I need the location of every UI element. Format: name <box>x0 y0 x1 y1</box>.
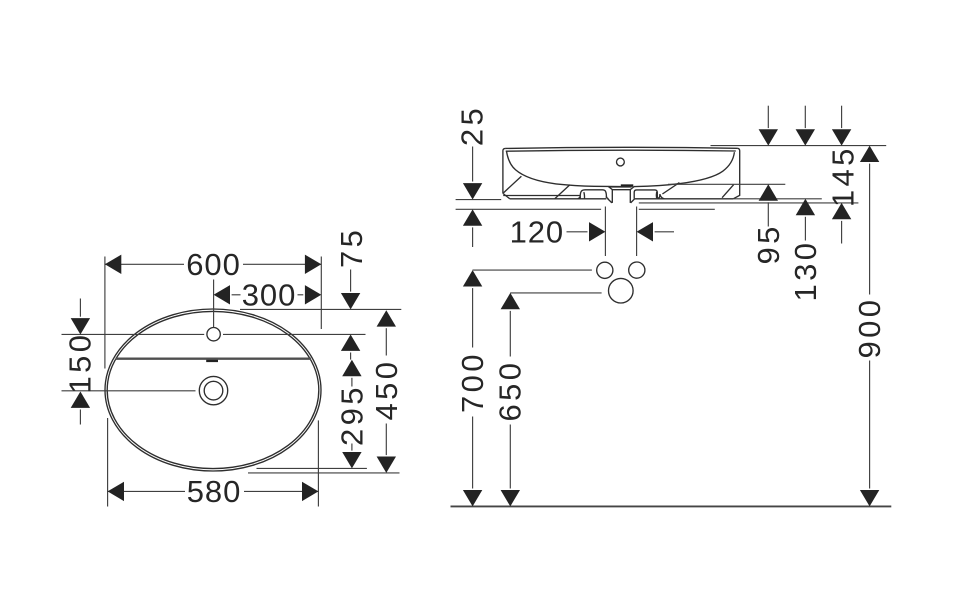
basin outer rim ellipse (top view) <box>105 309 321 471</box>
dimension 75 stem <box>350 270 352 292</box>
extension line left (120) <box>604 207 606 257</box>
drain outer circle <box>199 376 227 404</box>
top arrow stem (130) <box>804 106 806 128</box>
dimension 700 upper arrowhead (up) <box>463 270 482 286</box>
dimension 900 upper stem <box>869 164 871 295</box>
dimension 650 upper stem <box>509 311 511 357</box>
dimension 650 lower arrowhead (down) <box>501 490 520 506</box>
svg-text:650: 650 <box>493 360 528 422</box>
svg-text:95: 95 <box>751 223 786 264</box>
extension line right (580) <box>317 420 319 506</box>
drain dip line <box>609 186 632 188</box>
top arrowhead 130 (down) <box>796 129 815 145</box>
right channel foot hairpin inner arc <box>655 192 657 198</box>
dimension 700 lower arrowhead (down) <box>463 490 482 506</box>
svg-text:25: 25 <box>454 105 489 146</box>
dimension 95 lower stem <box>767 202 769 226</box>
dimension 295 lower stem <box>351 444 353 451</box>
mounting plane line right <box>639 208 715 210</box>
drain pipe left break kick <box>608 199 612 203</box>
dimension 650 lower stem <box>509 425 511 489</box>
drain pipe right wall <box>629 190 631 203</box>
faucet hole <box>207 328 220 341</box>
svg-text:450: 450 <box>369 359 404 421</box>
right fixing hole <box>629 262 645 278</box>
left wall hatch 2 <box>555 185 570 199</box>
svg-text:130: 130 <box>788 240 823 302</box>
drain pipe left wall <box>611 190 613 203</box>
dimension 600 right arrowhead <box>305 255 321 274</box>
dimension 450 lower stem <box>385 424 387 456</box>
dimension 295 lower arrowhead (down) <box>342 452 361 468</box>
top arrowhead 95 (down) <box>759 129 778 145</box>
dimension 130 lower arrowhead (up) <box>796 199 815 215</box>
basin left wall (side view) <box>503 148 506 193</box>
top reference line (145/900) <box>711 145 887 147</box>
dimension 700 lower stem <box>472 417 474 489</box>
drain hole circle <box>609 278 634 303</box>
bowl interior curve left <box>506 151 621 187</box>
drain inner circle <box>204 381 223 400</box>
bowl bottom reference line (95) <box>668 183 785 185</box>
dimension 295 upper arrowhead (up) <box>342 360 361 376</box>
basin inner rim ellipse (top view) <box>107 311 319 468</box>
dimension 900 lower stem <box>869 361 871 489</box>
dimension 75 upper arrowhead (down) <box>341 293 360 309</box>
basin bottom extension line (130) <box>733 198 822 200</box>
dimension 120 stem left <box>567 231 588 233</box>
basin under-surface line <box>503 195 580 197</box>
dimension 130 lower stem <box>804 217 806 241</box>
left channel foot hairpin inner arc <box>583 192 586 199</box>
basin bottom line right segment <box>635 198 733 200</box>
dimension 75 lower stem <box>350 353 352 360</box>
dimension 450 lower arrowhead (down) <box>377 457 396 473</box>
dimension 75 lower arrowhead (up) <box>341 335 360 351</box>
extension line left (600) <box>104 257 106 369</box>
reference line to drain hole (650) <box>510 292 601 294</box>
right channel foot curl <box>660 194 664 199</box>
dimension 700 upper stem <box>472 288 474 347</box>
dimension 120 right arrowhead (pointing right) <box>589 222 605 241</box>
left mounting channel <box>580 190 606 199</box>
lower reference line (145) <box>639 202 859 204</box>
right wall hatch 1 <box>662 183 679 194</box>
dimension 600 left arrowhead <box>105 255 121 274</box>
dimension 150 lower stem <box>79 410 81 425</box>
LEFT VIEW GROUP <box>62 227 404 509</box>
svg-text:295: 295 <box>335 384 370 446</box>
top arrow stem (95) <box>767 106 769 128</box>
RIGHT VIEW GROUP <box>451 105 892 507</box>
outer bottom tangent reference line (450) <box>248 472 400 474</box>
top tangent reference line <box>240 308 401 310</box>
dimension 580 right arrowhead <box>302 482 318 501</box>
floor line <box>451 505 892 507</box>
svg-text:700: 700 <box>455 351 490 413</box>
dimension 450 upper stem <box>385 328 387 355</box>
dimension 25 upper stem <box>472 147 474 182</box>
reference line to left fixing hole (700) <box>473 269 592 271</box>
dimension 300 left arrowhead <box>214 285 230 304</box>
basin underside reference (25) <box>456 199 502 201</box>
left channel left foot flare <box>578 196 581 198</box>
dimension 900 upper arrowhead (up) <box>860 146 879 162</box>
svg-text:580: 580 <box>187 474 241 509</box>
faucet hole centerline right segment <box>223 333 366 335</box>
dimension 25 lower arrowhead (up) <box>463 209 482 225</box>
extension line right (120) <box>636 207 638 257</box>
dimension 95 lower arrowhead (up) <box>759 184 778 200</box>
dimension 580 line <box>108 490 185 492</box>
top arrow stem (145) <box>841 106 843 128</box>
dimension 900 lower arrowhead (down) <box>860 490 879 506</box>
left channel right foot flare <box>606 196 608 198</box>
dimension 25 upper arrowhead (down) <box>463 183 482 199</box>
dimension 150 lower arrowhead (up) <box>71 392 90 408</box>
dimension 25 lower stem <box>472 227 474 247</box>
svg-text:145: 145 <box>825 145 860 207</box>
svg-text:75: 75 <box>334 227 369 268</box>
drain opening (thick dark) <box>621 184 634 187</box>
svg-text:150: 150 <box>63 332 98 394</box>
dimension 145 lower stem <box>841 221 843 244</box>
dimension 295 upper stem <box>351 378 353 387</box>
extension line right (600/300) <box>320 257 322 330</box>
svg-text:300: 300 <box>242 277 296 312</box>
mounting plane line left <box>456 208 601 210</box>
basin rim second line <box>506 150 736 151</box>
drain pipe right break kick <box>631 199 635 203</box>
extension line left (580) <box>107 418 109 507</box>
basin bottom line left segment <box>510 198 607 200</box>
dimension 450 upper arrowhead (up) <box>377 310 396 326</box>
basin deck edge (waterline) <box>116 358 312 360</box>
dimension 600 line <box>105 263 184 265</box>
dimension 150 upper arrowhead (down) <box>71 318 90 334</box>
svg-text:900: 900 <box>852 297 887 359</box>
svg-text:120: 120 <box>510 214 564 249</box>
dimension 120 stem right <box>655 231 674 233</box>
svg-text:600: 600 <box>186 247 240 282</box>
right wall hatch 2 <box>722 185 734 198</box>
dimension 150 upper stem <box>79 299 81 317</box>
overflow hole <box>617 158 625 166</box>
dimension 580 left arrowhead <box>108 482 124 501</box>
dimension 300 line <box>232 294 241 296</box>
right mounting channel <box>634 190 660 199</box>
basin right wall <box>733 148 740 199</box>
basin bottom left chamfer <box>503 193 510 198</box>
dimension 650 upper arrowhead (up) <box>501 293 520 309</box>
left fixing hole <box>597 262 613 278</box>
drain leader line <box>62 390 196 392</box>
faucet hole centerline left segment <box>62 333 205 335</box>
dimension 145 lower arrowhead (up) <box>832 203 851 219</box>
left wall hatch 1 <box>504 176 522 193</box>
drain funnel <box>608 186 634 189</box>
vertical centerline above faucet hole <box>213 280 215 328</box>
basin rim top line <box>505 147 737 148</box>
dimension 120 left arrowhead (pointing left) <box>637 222 653 241</box>
bowl interior curve right <box>634 152 734 186</box>
dimension 300 right arrowhead <box>305 285 321 304</box>
inner bottom tangent reference line (295) <box>257 467 367 469</box>
deck edge center tick <box>206 360 218 362</box>
top arrowhead 145 (down) <box>832 129 851 145</box>
